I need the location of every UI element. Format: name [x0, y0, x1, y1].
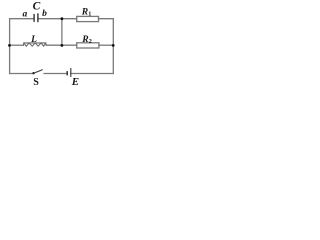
wire R1 right to top-right corner	[99, 18, 114, 20]
svg-text:E: E	[71, 76, 79, 88]
svg-text:R1: R1	[81, 6, 92, 17]
wire switch right to battery left plate	[44, 73, 67, 75]
wire left vertical	[9, 19, 11, 74]
svg-text:L: L	[30, 35, 37, 45]
wire center junction to R2 left	[62, 44, 77, 46]
wire branch vertical (top junction to center junction)	[61, 19, 63, 46]
wire right vertical (corner down to bottom corner)	[112, 19, 114, 74]
junction node dot right	[112, 44, 115, 47]
wire R2 right to right junction	[99, 44, 113, 46]
svg-text:C: C	[33, 1, 41, 13]
wire top-left horizontal (corner to capacitor left plate)	[10, 18, 34, 20]
junction node dot top	[61, 17, 64, 20]
capacitor C plates	[34, 13, 38, 22]
svg-text:a: a	[23, 10, 28, 20]
switch contact dot	[32, 72, 34, 74]
wire top junction to R1 left	[62, 18, 77, 20]
battery E plates	[67, 68, 71, 77]
wire inductor right to center junction	[46, 44, 62, 46]
inductor L coil	[23, 43, 46, 46]
wire bottom left (corner to switch contact)	[10, 73, 33, 75]
wire battery right to bottom-right corner	[71, 73, 114, 75]
wire middle row left (left junction to inductor)	[10, 44, 24, 46]
junction node dot left	[8, 44, 11, 47]
resistor R1 box	[77, 16, 99, 21]
junction node dot center	[61, 44, 64, 47]
wire capacitor right plate to top junction	[38, 18, 62, 20]
resistor R2 box	[77, 43, 99, 48]
svg-text:R2: R2	[81, 34, 92, 45]
svg-text:S: S	[33, 77, 39, 88]
svg-text:b: b	[42, 9, 47, 19]
switch S lever	[34, 70, 42, 73]
